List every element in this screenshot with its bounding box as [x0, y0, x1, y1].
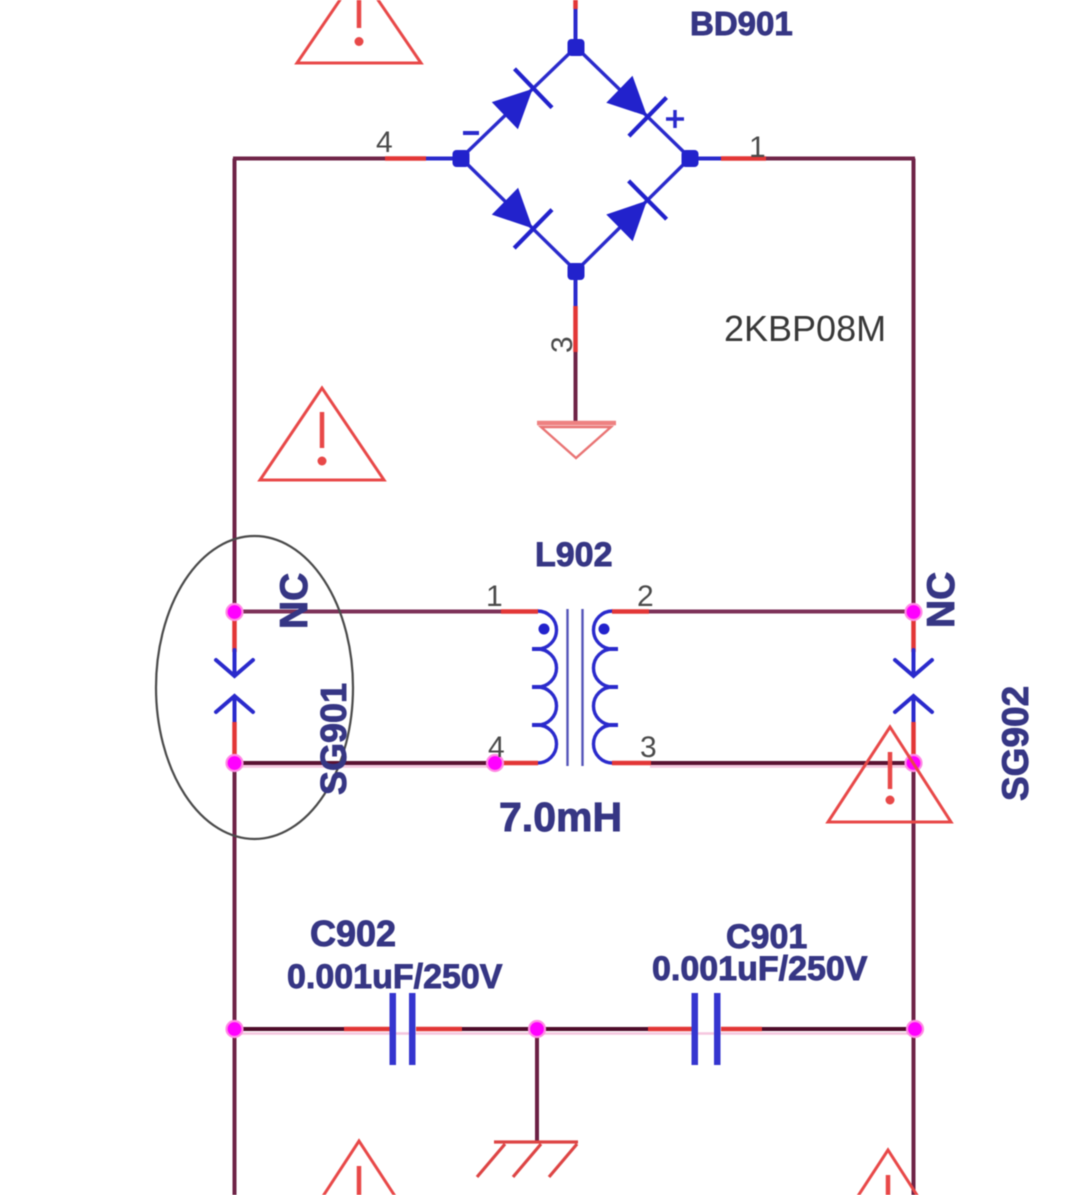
- spark gap SG902 top stub: [911, 612, 916, 652]
- warning triangle top: [297, 0, 421, 63]
- svg-text:2KBP08M: 2KBP08M: [724, 308, 886, 349]
- transformer L902 polarity dot left: [539, 624, 550, 635]
- svg-text:SG901: SG901: [313, 683, 354, 795]
- transformer L902 polarity dot right: [599, 624, 610, 635]
- spark gap SG902 down arrow: [895, 650, 932, 676]
- wire: right vertical rail upper: [912, 159, 916, 614]
- wire: left vertical rail upper: [233, 159, 237, 614]
- bridge node left (pin 4): [453, 150, 470, 167]
- svg-text:BD901: BD901: [690, 5, 793, 42]
- transformer L902 pin 4 stub: [497, 761, 538, 766]
- spark gap SG901 down arrow: [216, 650, 253, 676]
- junction node dot (left rail / lower mid rail): [227, 755, 243, 771]
- svg-text:4: 4: [376, 126, 393, 159]
- junction node dot (right rail / bottom rail): [907, 1021, 923, 1037]
- wire: right vertical rail lower: [912, 762, 916, 1195]
- bridge rectifier BD901 body (diamond edges): [461, 47, 690, 271]
- junction node dot (lower mid rail at pin 4): [487, 755, 503, 771]
- wire: top-left horizontal to bridge pin 4: [233, 157, 385, 161]
- svg-text:C902: C902: [310, 913, 396, 954]
- junction node dot (right rail / upper mid rail): [906, 604, 922, 620]
- svg-text:NC: NC: [920, 572, 963, 628]
- capacitor C901 right stub: [721, 1027, 762, 1032]
- wire: bridge pin 1 to right rail: [690, 157, 721, 161]
- svg-text:3: 3: [546, 336, 579, 353]
- transformer L902 left winding: [538, 611, 557, 763]
- svg-text:1: 1: [749, 131, 766, 164]
- svg-text:SG902: SG902: [995, 686, 1036, 801]
- svg-text:0.001uF/250V: 0.001uF/250V: [652, 950, 868, 988]
- junction node dot (right rail / lower mid rail): [906, 755, 922, 771]
- ground symbol below bridge: [537, 423, 616, 458]
- svg-text:1: 1: [486, 580, 503, 613]
- spark gap SG901 up arrow: [216, 696, 253, 724]
- bridge diode upper-left: [493, 69, 552, 129]
- wire: mid vertical from bottom rail to chassis ground: [535, 1029, 539, 1141]
- svg-text:2: 2: [637, 580, 654, 613]
- svg-text:7.0mH: 7.0mH: [499, 794, 622, 840]
- spark gap SG902 bottom stub: [911, 722, 916, 763]
- bridge diode lower-right: [607, 181, 666, 240]
- wire: bridge pin 3 down to ground: [574, 278, 578, 306]
- svg-text:L902: L902: [535, 536, 613, 574]
- capacitor C902 right stub: [416, 1027, 462, 1032]
- transformer L902 pin 3 stub: [612, 761, 651, 766]
- capacitor C902 left stub: [344, 1027, 390, 1032]
- wire: lower mid rail y763 right segment: [650, 765, 914, 768]
- wire: upper mid rail y612 left segment: [235, 610, 502, 614]
- svg-text:0.001uF/250V: 0.001uF/250V: [287, 958, 503, 996]
- wire: bridge pin 2 stub at top: [573, 0, 578, 9]
- warning triangle bottom-left: [297, 1141, 421, 1195]
- spark gap SG901 top stub: [232, 612, 237, 652]
- wire: left vertical rail lower: [233, 762, 237, 1195]
- warning triangle bottom-right: [826, 1150, 949, 1195]
- junction node dot (left rail / bottom rail): [227, 1021, 243, 1037]
- bridge node top (pin 2): [568, 39, 585, 56]
- bridge diode lower-left: [493, 189, 552, 248]
- junction node dot (left rail / upper mid rail): [227, 604, 243, 620]
- chassis ground symbol at bottom: [477, 1142, 578, 1177]
- transformer L902 pin 1 stub: [501, 609, 538, 614]
- svg-text:NC: NC: [273, 573, 316, 629]
- spark gap SG902 up arrow: [895, 696, 932, 724]
- annotation ellipse around SG901: [156, 536, 353, 839]
- bridge plus polarity mark: [666, 117, 684, 121]
- spark gap SG901 bottom stub: [232, 722, 237, 763]
- warning triangle right (at SG902): [828, 727, 951, 822]
- bridge node right (pin 1): [682, 150, 699, 167]
- transformer L902 pin 2 stub: [612, 609, 649, 614]
- wire: lower mid rail y763 left segment (with pink select halo): [235, 765, 498, 768]
- svg-text:3: 3: [640, 731, 657, 764]
- wire: bottom rail y1029 (with pink select halo): [235, 1032, 916, 1035]
- warning triangle mid-left: [260, 388, 384, 480]
- bridge minus polarity mark: [463, 131, 479, 135]
- svg-text:4: 4: [488, 731, 505, 764]
- bridge node bottom (pin 3): [568, 263, 585, 280]
- bridge diode upper-right: [607, 77, 666, 136]
- capacitor C902 plates: [390, 993, 397, 1065]
- capacitor C901 plates: [692, 993, 699, 1065]
- junction node dot (bottom rail / ground branch): [529, 1021, 545, 1037]
- transformer L902 right winding: [594, 611, 613, 763]
- capacitor C901 left stub: [648, 1027, 692, 1032]
- transformer L902 core lines: [566, 609, 568, 766]
- wire: upper mid rail y612 right segment: [648, 610, 914, 614]
